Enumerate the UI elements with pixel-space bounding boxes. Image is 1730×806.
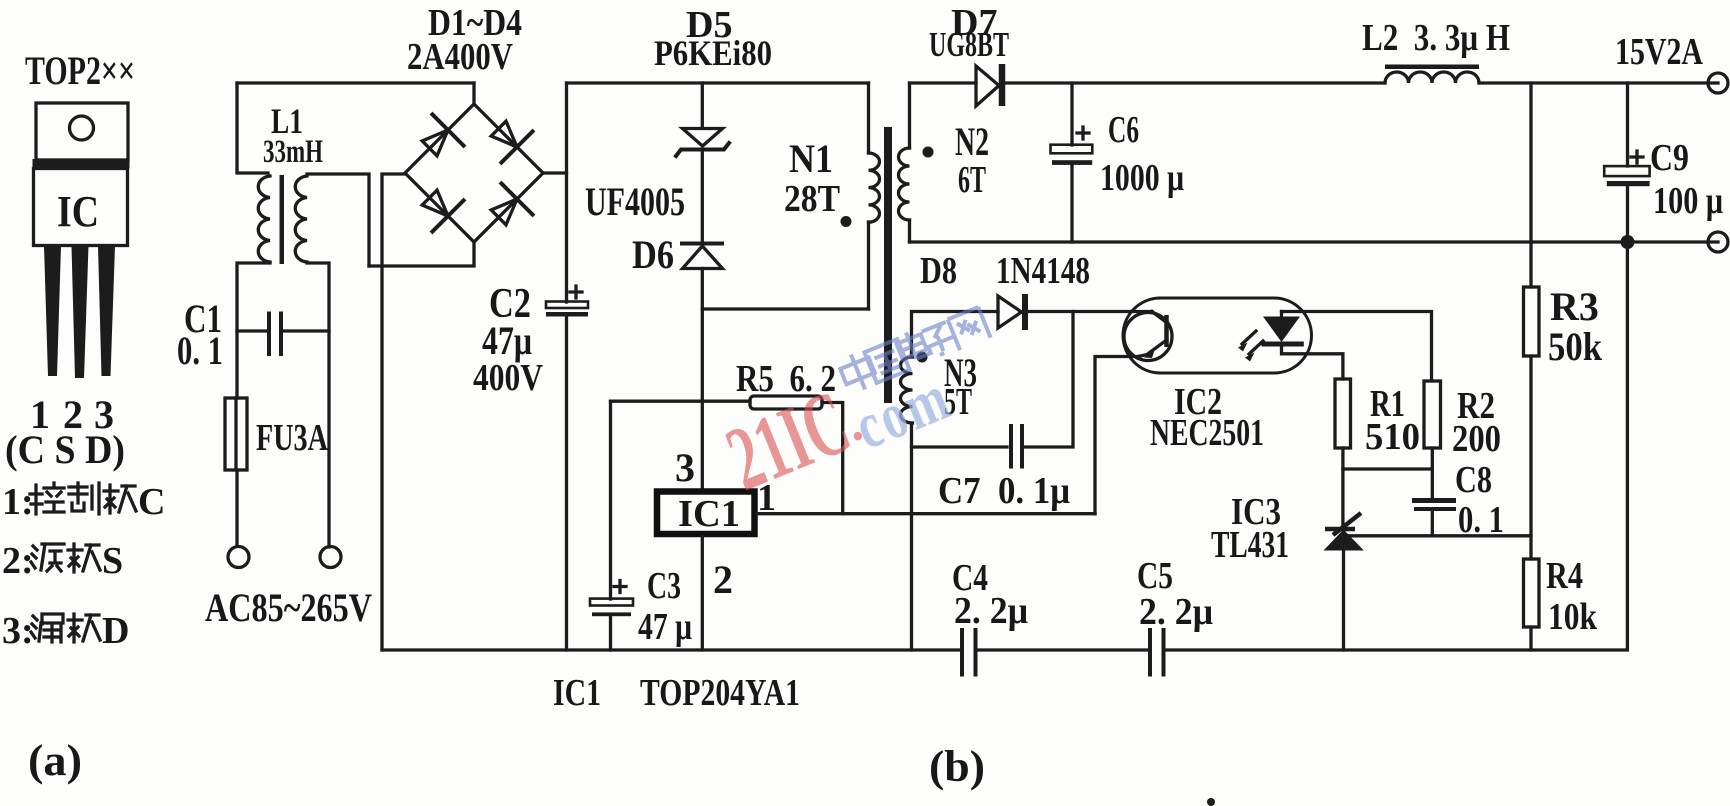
- wire R2 bottom to C8: [1431, 448, 1434, 498]
- inductor L1 core bar: [280, 175, 285, 264]
- capacitor C2 top plate: [546, 302, 588, 309]
- svg-text:(C S D): (C S D): [5, 427, 125, 472]
- optocoupler IC2 body: [1123, 298, 1312, 373]
- svg-text:(b): (b): [929, 742, 985, 791]
- svg-text:R4: R4: [1546, 555, 1583, 597]
- wire LED anode to R2: [1282, 312, 1432, 382]
- watermark 21IC.com: [713, 360, 961, 510]
- wire N3 bottom down to ground rail: [910, 423, 913, 650]
- wire bridge lower AC link: [369, 242, 474, 266]
- svg-text:D6: D6: [632, 232, 674, 277]
- svg-text:AC85~265V: AC85~265V: [205, 585, 372, 630]
- svg-text:15V2A: 15V2A: [1615, 31, 1703, 73]
- resistor R2 body: [1424, 381, 1441, 448]
- capacitor C2 plus sign: [570, 286, 582, 298]
- wire C8 bottom to ref node: [1431, 511, 1434, 536]
- bridge rectifier D1-D4 diamond: [405, 104, 543, 242]
- wire R1 bottom to TL431 cathode: [1341, 448, 1344, 527]
- wire primary ground rail: [382, 242, 1627, 650]
- bridge diode lower-left: [414, 182, 463, 231]
- resistor R5 body: [750, 396, 822, 409]
- TL431 IC3 cathode bar: [1325, 527, 1355, 532]
- svg-text:1N4148: 1N4148: [996, 250, 1090, 292]
- opto transistor circle: [1124, 313, 1172, 361]
- svg-text:C3: C3: [647, 565, 681, 607]
- transformer N3 winding: [901, 357, 913, 423]
- svg-text:C7 0. 1μ: C7 0. 1μ: [938, 470, 1070, 512]
- AC terminal left: [228, 547, 249, 568]
- bridge diode lower-right: [483, 183, 532, 232]
- diode D8 cathode bar: [1022, 294, 1028, 330]
- svg-text:1:: 1:: [2, 481, 34, 523]
- wire C9 branch: [1626, 83, 1629, 242]
- ink speck bottom: [1207, 798, 1215, 806]
- watermark chinese characters: [837, 307, 991, 395]
- capacitor C8 top plate: [1412, 498, 1456, 503]
- wire L2 to output terminal: [1479, 81, 1718, 84]
- resistor R1 body: [1335, 379, 1351, 448]
- wire secondary top rail to D7: [910, 81, 977, 84]
- svg-text:2. 2μ: 2. 2μ: [1139, 591, 1213, 633]
- wire N1 bottom vertical: [867, 222, 870, 309]
- svg-text:47 μ: 47 μ: [638, 606, 692, 648]
- wire R5 top loop from C3 to R5: [611, 400, 751, 403]
- svg-text:P6KEi80: P6KEi80: [654, 33, 772, 73]
- TVS diode D5 triangle: [683, 129, 723, 147]
- svg-text:NEC2501: NEC2501: [1150, 412, 1264, 454]
- capacitor C9 plus sign: [1631, 151, 1643, 163]
- wire left line down to L1: [237, 83, 268, 173]
- note 2: source electrode S: [2, 540, 123, 582]
- wire D5 branch from rail: [701, 83, 704, 128]
- wire secondary top rail D7 to L2: [1005, 81, 1385, 84]
- capacitor C6 bottom plate: [1052, 160, 1092, 165]
- inductor L1 right winding: [295, 176, 307, 262]
- capacitor C7 plates: [1011, 426, 1022, 467]
- package U (TO-220 outline) tab: [36, 103, 128, 160]
- svg-text:TOP2××: TOP2××: [25, 48, 135, 93]
- svg-text:510: 510: [1365, 416, 1420, 458]
- note 1: control electrode C: [2, 481, 165, 523]
- capacitor C6 plus sign: [1077, 127, 1089, 139]
- wire mid rail (secondary ground): [910, 240, 1719, 243]
- capacitor C3 bottom plate: [592, 612, 631, 616]
- capacitor C9 top plate: [1604, 166, 1649, 176]
- TVS diode D5 zener bar: [676, 143, 729, 156]
- wire C3 branch: [609, 401, 612, 650]
- svg-text:N2: N2: [955, 119, 989, 164]
- AC terminal right: [320, 547, 341, 568]
- fuse FU3A wire through: [236, 398, 237, 546]
- wire N3 top link to D8: [912, 312, 999, 358]
- capacitor C2 bottom plate: [546, 312, 588, 317]
- resistor R3 body: [1524, 287, 1540, 356]
- wire C7 bias branch: [912, 312, 1074, 448]
- svg-text:2. 2μ: 2. 2μ: [954, 590, 1028, 632]
- svg-text:C8: C8: [1455, 459, 1492, 501]
- transformer N2 winding: [899, 148, 910, 220]
- svg-text:N1: N1: [789, 136, 833, 181]
- wire R3 R4 branch vertical: [1529, 83, 1532, 650]
- opto transistor collector lead: [1152, 312, 1167, 323]
- svg-text:400V: 400V: [473, 357, 543, 399]
- svg-text:IC1: IC1: [678, 493, 740, 535]
- svg-text:200: 200: [1452, 418, 1501, 460]
- package heatsink band: [33, 159, 130, 169]
- package pin 1 leg: [44, 246, 61, 376]
- capacitor C5 plates: [1150, 630, 1164, 675]
- svg-text:C9: C9: [1650, 137, 1689, 179]
- package pin 3 leg: [98, 246, 115, 376]
- opto LED anode stub: [1280, 312, 1283, 318]
- wire C6 branch: [1070, 83, 1073, 242]
- transformer polarity dot N3: [917, 352, 928, 363]
- svg-text:6T: 6T: [958, 159, 986, 201]
- diode D7 triangle: [976, 66, 999, 106]
- capacitor C4 plates: [962, 630, 976, 675]
- wire N1 bottom horizontal: [702, 307, 868, 310]
- opto light arrows: [1242, 331, 1263, 354]
- diode D6 cathode bar: [682, 242, 722, 246]
- svg-text:2:: 2:: [2, 540, 34, 582]
- bridge diode upper-right: [483, 113, 532, 162]
- IC1 TOP204 box: [657, 492, 755, 535]
- wire LED cathode to R1: [1282, 346, 1343, 379]
- wire N2 top vertical: [908, 83, 911, 148]
- wire bridge top stub: [472, 83, 475, 104]
- svg-text:(a): (a): [28, 736, 82, 785]
- svg-text:3: 3: [675, 445, 695, 490]
- junction dot secondary ground: [1621, 235, 1635, 249]
- svg-text:2A400V: 2A400V: [407, 36, 513, 78]
- svg-text:FU3A: FU3A: [256, 417, 328, 459]
- svg-text:1000 μ: 1000 μ: [1100, 157, 1184, 199]
- svg-text:2: 2: [713, 557, 733, 602]
- wire R5 right to pin1 net: [822, 403, 843, 514]
- output terminal minus: [1708, 232, 1728, 252]
- inductor L2 core bar: [1385, 65, 1479, 70]
- opto transistor base bar: [1164, 315, 1169, 347]
- bridge diode upper-left: [414, 114, 463, 163]
- wire drain: D6 down through N1 node to IC1 pin3: [701, 269, 704, 489]
- capacitor C3 plus sign: [614, 581, 626, 593]
- svg-text:UG8BT: UG8BT: [929, 25, 1009, 64]
- wire bridge plus to C2 node: [543, 171, 567, 174]
- diode D6 triangle: [683, 246, 723, 269]
- svg-text:TOP204YA1: TOP204YA1: [640, 672, 800, 714]
- svg-text:S: S: [102, 540, 123, 582]
- svg-text:10k: 10k: [1548, 596, 1598, 638]
- svg-text:D: D: [102, 610, 129, 652]
- TL431 adjust tail: [1333, 513, 1361, 535]
- svg-text:0. 1: 0. 1: [177, 328, 223, 373]
- svg-text:R3: R3: [1550, 284, 1599, 329]
- svg-text:C6: C6: [1108, 109, 1139, 151]
- svg-text:TL431: TL431: [1211, 524, 1289, 566]
- output terminal plus: [1708, 73, 1728, 93]
- svg-text:C: C: [138, 481, 165, 523]
- svg-text:IC: IC: [57, 187, 99, 236]
- svg-text:3:: 3:: [2, 610, 34, 652]
- opto transistor emitter lead: [1138, 340, 1167, 357]
- capacitor C3 top plate: [590, 599, 633, 606]
- capacitor C1 plates: [269, 314, 281, 355]
- wire opto emitter to pin1 net: [1095, 357, 1138, 514]
- resistor R4 body: [1524, 559, 1540, 627]
- wire IC1 pin1 feedback line: [757, 512, 1095, 515]
- transformer core bar: [884, 127, 892, 403]
- svg-text:L2 3. 3μ H: L2 3. 3μ H: [1362, 17, 1510, 59]
- capacitor C9 bottom plate: [1607, 181, 1650, 186]
- wire N1 top vertical: [867, 83, 870, 153]
- diode D8 triangle: [998, 296, 1022, 328]
- wire primary DC top rail: [567, 81, 869, 84]
- opto LED triangle: [1263, 317, 1300, 343]
- package body: [34, 169, 128, 246]
- wire TL431 anode to ground rail: [1342, 550, 1345, 650]
- wire D8 cathode to optocoupler: [1028, 310, 1152, 313]
- wire ref node horizontal: [1344, 534, 1532, 537]
- svg-text:28T: 28T: [784, 178, 840, 220]
- svg-text:33mH: 33mH: [263, 134, 323, 170]
- wire D5 to D6: [701, 150, 704, 243]
- capacitor C8 bottom plate: [1414, 507, 1456, 511]
- opto emitter arrowhead: [1144, 346, 1156, 358]
- note 3: drain electrode D: [2, 610, 129, 652]
- diode D7 cathode bar: [999, 64, 1006, 106]
- package pin 2 leg: [72, 246, 89, 378]
- fuse FU3A body: [225, 398, 247, 470]
- package mounting hole: [70, 116, 94, 140]
- wire bridge minus line: [382, 174, 405, 650]
- wire L1 left bottom down to fuse: [237, 263, 270, 398]
- svg-text:100 μ: 100 μ: [1653, 180, 1723, 222]
- wire IC1 pin2 to ground rail: [701, 537, 704, 650]
- opto LED cathode bar: [1262, 342, 1304, 347]
- svg-text:D8: D8: [920, 250, 957, 292]
- inductor L1 left winding: [258, 176, 270, 262]
- wire C2 branch vertical: [565, 83, 568, 650]
- wire N2 bottom to mid rail: [908, 220, 911, 242]
- inductor L2 winding: [1385, 72, 1479, 83]
- wire top AC rail: [237, 81, 474, 84]
- transformer polarity dot N2: [923, 147, 934, 158]
- svg-text:IC1: IC1: [553, 672, 601, 714]
- wire L1 right top to bridge: [307, 174, 369, 266]
- TL431 triangle: [1324, 530, 1364, 551]
- capacitor C1 wires: [237, 329, 329, 332]
- svg-text:UF4005: UF4005: [585, 179, 685, 224]
- transformer polarity dot N1: [841, 216, 852, 227]
- transformer N1 winding: [869, 153, 880, 222]
- capacitor C6 top plate: [1051, 145, 1093, 154]
- wire L1 right bottom down to AC terminal: [307, 263, 329, 547]
- svg-text:50k: 50k: [1548, 324, 1603, 369]
- wire R1-R2 bottom link: [1343, 467, 1432, 470]
